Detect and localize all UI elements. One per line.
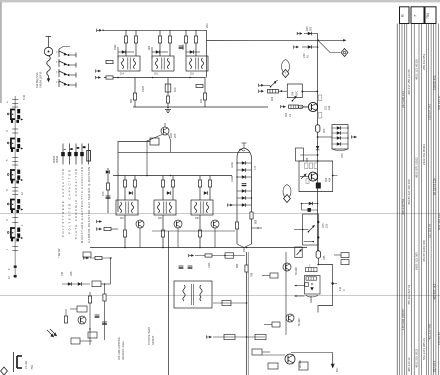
svg-text:MINIATURE ELECTROLYTIC CAPACIT: MINIATURE ELECTROLYTIC CAPACITOR <box>80 167 84 243</box>
ladder right stub <box>252 227 263 228</box>
svg-text:205: 205 <box>173 133 177 138</box>
DIN socket BU5 <box>7 228 23 242</box>
transformer S301 <box>116 200 138 215</box>
legend symbol polyester capacitor <box>68 144 73 165</box>
resistor R314 <box>104 227 118 230</box>
svg-text:452 86 227 118 460: 452 86 227 118 460 <box>407 179 411 205</box>
resistor R332 <box>103 294 106 301</box>
svg-text:4 Ω: 4 Ω <box>338 287 342 291</box>
input arrow <box>84 256 89 259</box>
svg-text:SHUNI LDF B: SHUNI LDF B <box>39 72 43 88</box>
diode GR203 <box>186 51 200 53</box>
battery inner box <box>305 276 321 295</box>
label C05 <box>306 26 313 31</box>
svg-text:T: T <box>284 72 286 76</box>
svg-text:250 462 051: 250 462 051 <box>422 54 426 70</box>
input contact P1 <box>297 32 302 35</box>
regulator lever <box>308 225 315 233</box>
wire to test node <box>318 40 340 52</box>
emitter branch <box>134 78 136 108</box>
mid rail record amp <box>152 230 235 232</box>
input arrows mid left <box>96 69 101 72</box>
switch bank tie bar <box>56 47 70 83</box>
svg-text:247 G60 213: 247 G60 213 <box>401 91 405 108</box>
svg-text:GR32: GR32 <box>231 175 234 182</box>
svg-text:C05: C05 <box>323 255 326 260</box>
svg-text:4822 252 2012: 4822 252 2012 <box>414 348 418 368</box>
erase osc resistor <box>245 265 254 277</box>
legend note values <box>53 155 61 258</box>
top coil <box>239 149 245 151</box>
ladder diode row 2 <box>237 168 252 172</box>
emitter wire <box>169 135 171 153</box>
amp stage 2 <box>148 30 177 107</box>
resistor R331 <box>92 281 101 287</box>
resistor R203 <box>134 36 137 43</box>
resistor R410 rounded <box>316 245 326 260</box>
resistor R303 <box>133 180 136 187</box>
microphone M1 lead <box>46 37 52 48</box>
diode GR201 <box>118 51 134 53</box>
resistor R302 <box>123 180 126 187</box>
input contact P2 <box>294 45 299 48</box>
DIN socket BU3 <box>7 170 23 184</box>
bias wire <box>213 336 265 338</box>
transistor TS205 labels <box>318 95 331 118</box>
test point diamond T3 <box>283 185 291 203</box>
ladder bottom join <box>237 244 252 252</box>
svg-text:1K0: 1K0 <box>102 191 105 196</box>
transformer S302 <box>154 200 176 215</box>
record switch S1d <box>59 79 76 88</box>
left coupling box <box>296 148 304 161</box>
svg-text:360 240 552: 360 240 552 <box>401 199 405 215</box>
svg-text:0530: 0530 <box>182 44 185 50</box>
transistor TS330 <box>78 316 86 324</box>
diode row lower left <box>62 282 90 286</box>
svg-text:4822 121 40318: 4822 121 40318 <box>414 59 418 80</box>
svg-text:4094A: 4094A <box>56 155 59 163</box>
svg-text:201: 201 <box>205 23 209 28</box>
transistor TS401 <box>309 172 318 181</box>
svg-text:412 Bkg NSA: 412 Bkg NSA <box>35 72 39 88</box>
svg-text:453 05 1201 460: 453 05 1201 460 <box>422 240 426 262</box>
head transformer box <box>174 281 212 308</box>
svg-text:C: C <box>342 289 346 291</box>
cable arrow end <box>47 76 50 83</box>
svg-text:305: 305 <box>310 26 313 31</box>
amp stage 1 <box>114 30 145 107</box>
emitter branch3 <box>204 78 206 108</box>
resistor R344 <box>255 334 266 339</box>
label 201 <box>205 23 209 28</box>
transistor TS204 label <box>169 132 177 138</box>
resistor R307 <box>171 180 174 187</box>
lever below U201 <box>292 96 297 102</box>
test point diamond T2 <box>341 49 348 57</box>
resistor R301 <box>106 183 109 190</box>
diode GR303 <box>167 191 171 195</box>
svg-text:322: 322 <box>285 112 288 117</box>
transistor TS503 <box>285 354 302 368</box>
output transistors column <box>285 252 287 335</box>
supply rail top <box>103 29 207 31</box>
svg-text:PLATE CERAMIC CAPACITOR: PLATE CERAMIC CAPACITOR <box>74 169 78 239</box>
arrow contact head <box>189 254 194 257</box>
resistor R340 <box>205 254 212 257</box>
ladder diode row 1 <box>236 161 251 165</box>
lower feed wire <box>304 241 314 243</box>
fuse oval <box>298 105 308 108</box>
svg-text:414: 414 <box>329 177 332 182</box>
DIN socket BU4 <box>7 199 23 213</box>
long feed wire to detector <box>207 39 319 41</box>
transformer S201 <box>118 56 140 71</box>
tap wire left <box>300 154 319 162</box>
emitter resistor R312 <box>199 215 201 248</box>
resistor R502 <box>264 322 280 327</box>
ladder diode row 3 <box>236 175 251 179</box>
battery left stubs <box>295 285 305 297</box>
microphone label <box>35 72 43 88</box>
resistor R503 <box>268 363 278 369</box>
svg-text:6V=: 6V= <box>336 367 339 372</box>
record switch S1a <box>59 49 76 58</box>
regulator frame <box>303 214 329 245</box>
svg-text:680: 680 <box>130 98 133 103</box>
svg-text:2122: 2122 <box>114 44 117 50</box>
microphone cable <box>47 56 51 76</box>
regulator feed wire <box>294 229 308 231</box>
junction <box>117 77 191 79</box>
resistor R212 <box>166 96 169 103</box>
svg-text:C205: C205 <box>142 85 145 92</box>
diode GR202 <box>152 51 168 53</box>
level meter label <box>118 336 125 360</box>
svg-text:402: 402 <box>271 96 274 101</box>
svg-text:* 4Ω 5W: * 4Ω 5W <box>58 248 61 258</box>
svg-text:5W: 5W <box>30 364 34 369</box>
preamp cluster <box>64 292 107 345</box>
svg-text:3K3: 3K3 <box>174 87 177 92</box>
label C305b <box>303 53 310 58</box>
transistor TS502 <box>286 314 301 326</box>
svg-text:455 1K2 827 64: 455 1K2 827 64 <box>407 284 411 305</box>
svg-text:227 118 56: 227 118 56 <box>428 223 432 238</box>
resistor R201 <box>106 76 113 79</box>
TS401 labels <box>306 177 332 183</box>
input arrows record amp <box>97 220 102 223</box>
thermistor block <box>316 183 321 189</box>
TS401 base lever <box>300 173 308 178</box>
emitter resistor R304 <box>124 215 126 248</box>
small labels cluster <box>61 262 239 276</box>
svg-text:CARBON RESISTOR E12 SERIES Q-D: CARBON RESISTOR E12 SERIES Q-DN7510N <box>87 167 91 243</box>
transformer S303 <box>191 200 213 215</box>
svg-text:405 233 460: 405 233 460 <box>428 324 432 340</box>
transistor TS301 <box>136 220 144 228</box>
legend symbol carbon resistor <box>87 144 91 165</box>
svg-text:OSC: OSC <box>296 90 299 96</box>
node K at bottom left <box>1 367 8 375</box>
resistor R214 <box>184 36 187 43</box>
resistor R504 <box>299 362 308 370</box>
capacitor C214 <box>179 46 184 48</box>
diode GR301 <box>106 170 110 174</box>
capacitor C330 <box>83 252 91 257</box>
svg-text:764: 764 <box>292 91 295 96</box>
svg-text:145 G02 318 05: 145 G02 318 05 <box>401 309 405 330</box>
svg-text:214: 214 <box>328 105 331 110</box>
svg-text:788: 788 <box>251 272 254 277</box>
diode GR304 <box>204 191 208 195</box>
resistor R343 <box>224 334 235 339</box>
battery label <box>338 287 346 291</box>
svg-text:86 227 9 118: 86 227 9 118 <box>433 178 437 195</box>
record stage 1 <box>116 176 144 248</box>
table rotated entries col B <box>407 69 411 372</box>
rail to oscillator <box>301 91 318 93</box>
resistor R341 <box>225 253 234 258</box>
svg-text:468 217 450 121 05: 468 217 450 121 05 <box>407 69 411 95</box>
legend symbol plate ceramic capacitor <box>74 144 79 165</box>
ladder cap row <box>242 184 247 186</box>
svg-text:BC148: BC148 <box>295 267 298 275</box>
capacitor C203 <box>106 60 113 63</box>
svg-text:168 05 452: 168 05 452 <box>433 75 437 90</box>
svg-text:LS 4Ω: LS 4Ω <box>24 361 28 369</box>
svg-text:150 827 2K7: 150 827 2K7 <box>428 103 432 120</box>
transistor TS501 <box>283 263 298 275</box>
mid wire 303 <box>213 302 247 304</box>
svg-text:AZIMUT: AZIMUT <box>152 335 155 345</box>
mid rail <box>104 77 206 79</box>
connector end dots <box>14 266 17 278</box>
svg-text:562 2371 405 23: 562 2371 405 23 <box>422 338 426 360</box>
svg-text:4822 070 31102: 4822 070 31102 <box>414 157 418 178</box>
table rotated entries col E <box>428 103 432 340</box>
long vertical rail A <box>168 231 170 375</box>
ladder diode row 6 <box>237 203 252 207</box>
indicator arrows <box>47 329 57 337</box>
svg-text:B 40: B 40 <box>23 94 26 100</box>
transistor TS205 <box>300 102 318 111</box>
matrix box feed <box>317 136 332 138</box>
ladder stub <box>228 203 237 206</box>
svg-text:A0305: A0305 <box>310 295 313 303</box>
record stage 2 <box>154 176 182 248</box>
ladder diode row 4 <box>237 189 252 193</box>
legend caption ceramic <box>74 169 78 239</box>
svg-text:RECORD LEVEL: RECORD LEVEL <box>122 340 125 360</box>
resistor R230 striped <box>268 89 288 101</box>
AF box top labels <box>305 163 318 169</box>
DIN socket BU1 <box>7 109 23 123</box>
ladder labels <box>231 161 257 182</box>
vertical link <box>110 258 112 284</box>
cap pair <box>179 266 193 268</box>
bottom rail <box>133 106 268 108</box>
transformer S203 <box>186 56 208 71</box>
capacitor C301 <box>106 196 111 198</box>
amp stage 3 <box>179 30 208 107</box>
resistor R208 <box>158 36 161 43</box>
svg-text:86B: 86B <box>236 263 239 268</box>
table rotated entries col A <box>401 91 405 330</box>
input contact P3 <box>259 84 270 87</box>
wire 355 <box>262 354 285 356</box>
resistor R216 h <box>196 84 203 87</box>
connector cable bus <box>14 96 16 278</box>
oscillator box U201 <box>287 84 302 98</box>
svg-text:POLYESTER CAPACITOR: POLYESTER CAPACITOR <box>68 170 72 234</box>
driver cluster mid right <box>259 80 309 117</box>
labels driver cluster <box>285 112 292 117</box>
box C332 <box>77 306 87 312</box>
main lower bus <box>90 247 307 249</box>
input contact top left <box>97 29 104 32</box>
bias rail second amp <box>113 175 232 177</box>
table rotated entries col G <box>437 95 440 345</box>
sub loop wires <box>301 203 319 210</box>
table frame <box>396 24 398 375</box>
svg-text:TO TAPE HEAD: TO TAPE HEAD <box>148 327 151 345</box>
long vertical rail B <box>247 252 249 375</box>
box bottom <box>88 332 97 338</box>
resistor R220 rounded <box>316 125 327 133</box>
caps row <box>95 315 100 317</box>
svg-text:AC128: AC128 <box>299 360 302 368</box>
diode GR204 <box>304 32 318 36</box>
legend caption carbon resistor <box>87 167 91 243</box>
wire from coupling to left rail <box>118 142 150 213</box>
ground G1 <box>165 107 171 113</box>
svg-text:R35: R35 <box>70 271 73 276</box>
left page edge strip <box>0 2 2 103</box>
arrow contact bias <box>207 335 212 338</box>
power arrow down <box>331 364 335 369</box>
switch wire <box>90 257 112 259</box>
switch lever S2a <box>270 80 278 87</box>
wire transistor collector down <box>147 135 162 176</box>
table rotated entries col F <box>433 75 437 372</box>
record stage 3 <box>191 176 219 248</box>
table rotated entries col D <box>422 54 426 360</box>
junction <box>101 283 111 340</box>
table rotated entries col C <box>414 59 418 368</box>
erase head label <box>148 327 155 345</box>
striped box above battery <box>306 264 318 271</box>
svg-text:B: B <box>400 14 405 17</box>
resistor R215 <box>194 36 197 43</box>
contact P5 <box>281 105 286 108</box>
diode GR401 on bus <box>316 146 320 150</box>
supply bus right <box>317 34 319 252</box>
transformer S202 <box>152 56 174 71</box>
table column rules <box>400 24 439 375</box>
svg-text:462: 462 <box>148 45 151 50</box>
svg-text:VOLUME CONTROL: VOLUME CONTROL <box>118 336 121 360</box>
svg-text:8305 122 305: 8305 122 305 <box>414 252 418 270</box>
cap C402 <box>308 208 311 212</box>
resistor R333 <box>88 296 91 303</box>
AF amp box <box>299 160 338 191</box>
test point diamond T1 <box>282 60 290 78</box>
svg-text:C05: C05 <box>341 153 344 158</box>
svg-text:D: D <box>6 219 9 221</box>
svg-text:1043: 1043 <box>208 262 211 268</box>
svg-text:405 233 12: 405 233 12 <box>407 357 411 372</box>
head wire <box>195 255 245 257</box>
svg-text:868: 868 <box>255 219 258 224</box>
fold line upper <box>0 213 440 215</box>
legend caption electrolytic <box>80 167 84 243</box>
svg-text:460 455 1K2: 460 455 1K2 <box>433 283 437 300</box>
legend symbol electrolytic capacitor <box>80 144 85 165</box>
battery loop <box>317 258 337 312</box>
feed wire arrow end <box>318 39 346 42</box>
battery bottom bracket <box>306 295 318 303</box>
record switch S1c <box>59 69 76 78</box>
resistor R232 striped <box>289 105 299 108</box>
svg-text:C34: C34 <box>61 271 64 276</box>
transistor TS303 <box>211 220 219 228</box>
legend caption polystyrene <box>61 169 65 237</box>
connector pin labels <box>6 94 26 279</box>
resistor R202 <box>124 36 127 43</box>
diode GR205 <box>302 45 318 49</box>
resistor R218 <box>203 93 206 100</box>
table header cell 1 <box>400 7 410 24</box>
transistor TS302 <box>174 220 182 228</box>
top page edge bar <box>0 0 440 2</box>
supply rail second amp <box>118 151 250 153</box>
ladder rails <box>237 148 252 244</box>
speaker bracket LS1 <box>14 352 35 372</box>
DIN socket BU2 <box>7 138 23 152</box>
resistor R206 <box>133 93 136 100</box>
legend symbol polystyrene capacitor <box>61 144 65 165</box>
record switch S1b <box>59 59 76 68</box>
diode GR302 <box>129 191 133 195</box>
top right pair boxes <box>334 253 349 265</box>
ladder diode row 5 <box>237 196 252 200</box>
svg-text:BC148: BC148 <box>298 318 301 326</box>
electrolytic C210 <box>167 78 169 108</box>
aux switch box <box>295 247 302 258</box>
left bias chain <box>102 168 110 213</box>
transistor TS204 <box>161 123 169 135</box>
resistor R342 <box>222 300 231 305</box>
svg-text:B05: B05 <box>323 128 326 133</box>
ladder resistor R321 <box>235 222 238 229</box>
matrix right contact <box>352 135 357 138</box>
microphone M1 <box>44 47 52 55</box>
svg-text:11B: 11B <box>326 223 329 228</box>
legend caption polyester <box>68 170 72 234</box>
power switch wire <box>291 353 333 365</box>
input contact P4 <box>259 90 264 93</box>
svg-text:150: 150 <box>200 98 203 103</box>
resistor R334 <box>64 316 67 323</box>
resistor R330 <box>95 256 102 259</box>
diode matrix box <box>332 125 349 158</box>
resistor R311 <box>208 180 211 187</box>
diode GR402 <box>309 202 313 206</box>
resistor R501 <box>262 273 278 278</box>
bias osc small box <box>252 349 270 355</box>
table header cell 3 <box>425 7 436 24</box>
